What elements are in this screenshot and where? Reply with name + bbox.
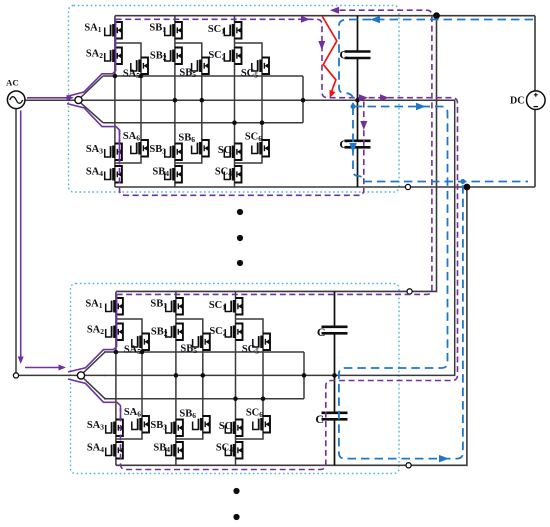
node module1 output terminal (open terminal) [405,184,410,189]
transistor SC5' [253,334,270,351]
svg-text:SC4: SC4 [215,167,232,179]
arrow purple chain down [18,357,24,365]
arrow blue bottom right [439,455,449,463]
svg-text:SC3: SC3 [219,421,236,433]
wire phase B clamp branch module1 [175,43,202,163]
svg-text:SB6: SB6 [179,409,196,421]
svg-text:SC5: SC5 [241,68,258,80]
arrow purple P1 right [301,16,310,23]
node clamp A / rail1 module2 [140,350,145,355]
node continuation dot 4 [233,488,239,494]
transistor SB3 [165,144,182,161]
arrow blue down at C2 [349,143,357,153]
svg-text:C: C [339,48,348,62]
arrow purple P1 down [318,41,325,50]
wire red fault zigzag across C1 [322,17,336,94]
svg-text:C: C [339,137,348,151]
svg-text:SA3: SA3 [87,420,104,432]
svg-text:SA6: SA6 [124,407,141,419]
node module2 top terminal (open terminal) [407,289,412,294]
transistor SB6' [193,416,210,433]
module 2 boundary (dotted box) [71,284,400,474]
node leg B / rail2 module2 [174,373,179,378]
wire top DC bus module1 to DC source [115,15,535,17]
transistor SA1 [105,22,122,39]
node fan point module2 [77,372,84,379]
wire AC1 to fan point [25,99,75,101]
node clamp C / rail3 module2 [261,396,266,401]
transistor SB6 [192,140,209,157]
transistor SC1' [225,298,242,315]
node clamp C / rail3 module1 [260,120,265,125]
svg-text:AC: AC [6,78,19,88]
svg-text:SB3: SB3 [149,144,166,156]
wire phase B leg module2 [175,292,177,466]
node leg B / rail2 module1 [173,98,178,103]
transistor SC6' [253,416,270,433]
wire purple dashed P4: module2 top bus up and left to module1 [117,10,432,294]
transistor SA6 [131,140,148,157]
svg-text:SC2: SC2 [208,50,225,62]
arrow purple P3 down [360,121,367,130]
wire phase A clamp branch module1 [115,43,141,163]
node leg A / rail1 module2 [114,350,119,355]
wire phase C clamp branch module1 [235,43,263,163]
node blue junction right side [460,179,465,184]
svg-text:DC: DC [510,96,524,107]
svg-text:SC1: SC1 [208,24,225,36]
arrow purple P2 right a [359,94,368,101]
svg-text:SC2: SC2 [209,326,226,338]
svg-text:SA2: SA2 [87,325,104,337]
wire module2 bottom bus up to bottom DC bus [116,187,467,465]
DC source [527,91,546,110]
transistor SB2' [166,324,183,341]
transistor SB1 [165,22,182,39]
svg-text:SB2: SB2 [150,51,167,63]
wire blue dashed down past C2 and right [353,107,528,182]
svg-text:SA1: SA1 [85,299,102,311]
svg-text:SC4: SC4 [216,443,233,455]
svg-text:SC1: SC1 [209,300,226,312]
arrow blue right to module2 [416,103,426,111]
wire AC rails module1 [103,76,303,123]
node clamp B / rail2 module1 [200,98,205,103]
wire phase C leg module2 [235,292,237,466]
wire purple dashed P1: module1 top bus to capacitor C1 to mid rail [116,19,359,97]
node leg C / rail3 module1 [232,120,237,125]
capacitor C (module1 lower) [357,100,359,187]
transistor SC2' [225,324,242,341]
wire purple fan hug module1 lower [67,104,120,160]
wire phase B clamp branch module2 [176,319,203,439]
node capacitor midpoint module1 [355,98,360,103]
transistor SC4' [225,442,242,459]
transistor SC3 [224,144,241,161]
wire AC chain down the left side [16,109,78,376]
svg-text:SA1: SA1 [84,23,101,35]
svg-text:SA5: SA5 [123,69,140,81]
arrow purple AC2 into module2 [59,365,67,371]
node collector / rail2 module2 [302,373,307,378]
svg-text:SB1: SB1 [150,299,167,311]
wire phase A clamp branch module2 [116,319,142,439]
arrow purple P4 left [330,7,339,14]
node AC chain terminal (open terminal) [13,373,18,378]
transistor SA2 [105,48,122,65]
arrow purple P2 right b [380,94,389,101]
transistor SC1 [224,22,241,39]
node blue junction at C1 bottom [351,104,356,109]
svg-text:SC6: SC6 [245,132,262,144]
node continuation dot 2 [237,235,243,241]
svg-text:SA4: SA4 [87,443,104,455]
module 1 boundary (dotted box) [69,6,400,193]
wire purple fan hug module2 upper [68,294,117,372]
transistor SA5 [131,58,148,75]
wire blue dashed top return [339,20,533,106]
wire bottom DC bus module1 [115,186,535,188]
transistor SB1' [166,298,183,315]
wire purple fan hug module2 lower [68,379,121,420]
capacitor C (module2 lower) [334,375,336,465]
svg-text:C: C [317,325,326,339]
node bottom DC bus junction [464,184,471,191]
wire mid rails link module1-module2 [103,100,455,375]
svg-text:SB1: SB1 [149,23,166,35]
svg-text:SB4: SB4 [153,443,170,455]
transistor SC3' [225,420,242,437]
svg-text:SB6: SB6 [178,133,195,145]
transistor SA4 [105,166,122,183]
transistor SB3' [166,420,183,437]
AC source AC1 [7,91,25,109]
wire AC rails module2 [104,352,304,399]
node continuation dot 1 [237,209,243,215]
transistor SB5 [192,58,209,75]
node top DC bus junction [433,12,440,19]
wire phase C leg module1 [234,16,236,187]
wire purple chain down (parallel to AC chain) [20,111,22,358]
svg-text:SA2: SA2 [86,49,103,61]
svg-text:SA6: SA6 [123,131,140,143]
transistor SC4 [224,166,241,183]
arrow red fault down [327,90,336,99]
node module2 bottom terminal (open terminal) [406,463,411,468]
wire DC source right side [534,16,536,187]
svg-text:SA3: SA3 [86,144,103,156]
transistor SA6' [132,416,149,433]
node fan point module1 [75,96,82,103]
transistor SA4' [106,442,123,459]
wire purple AC1 feed line [27,97,67,99]
transistor SB5' [193,334,210,351]
transistor SB4' [166,442,183,459]
transistor SA3 [105,144,122,161]
wire blue dashed loop through module2 [339,107,463,459]
arrow blue top left [370,16,380,24]
svg-text:SC5: SC5 [242,344,259,356]
svg-text:SC3: SC3 [218,145,235,157]
svg-text:SB5: SB5 [180,344,197,356]
svg-text:SA5: SA5 [124,345,141,357]
wire phase A leg module1 [114,16,116,187]
transistor SC5 [252,58,269,75]
transistor SC6 [252,140,269,157]
wire module2 top bus up to top DC bus [116,16,437,292]
node leg C / rail3 module2 [233,396,238,401]
wire purple dashed P3: mid rail down past C2 and back under module1 [120,102,364,196]
svg-text:SB4: SB4 [152,167,169,179]
wire purple AC2 feed line [25,367,59,369]
transistor SC2 [224,48,241,65]
wire phase C clamp branch module2 [236,319,264,439]
wire fan diagonals module1 [81,76,103,123]
wire phase B leg module1 [174,16,176,187]
svg-text:SB2: SB2 [151,327,168,339]
wire purple fan hug module1 upper [67,19,116,96]
node clamp B / rail2 module2 [201,373,206,378]
wire fan diagonals module2 [84,352,105,399]
transistor SA5' [132,334,149,351]
capacitor C (module2 upper) [334,291,336,375]
node capacitor midpoint module2 [332,373,337,378]
transistor SA1' [106,298,123,315]
transistor SB4 [165,166,182,183]
transistor SB2 [165,48,182,65]
node continuation dot 5 [233,514,239,520]
wire purple dashed P2: mid rail to module2 [121,98,458,470]
node leg A / rail1 module1 [113,74,118,79]
transistor SA2' [106,324,123,341]
svg-text:SB5: SB5 [179,68,196,80]
svg-text:SB3: SB3 [150,420,167,432]
capacitor C (module1 upper) [357,16,359,101]
svg-text:C: C [315,412,324,426]
wire phase A leg module2 [115,292,117,466]
node collector / rail2 module1 [301,98,306,103]
transistor SA3' [106,420,123,437]
arrow purple AC1 into module1 [67,95,75,101]
svg-text:SA4: SA4 [86,167,103,179]
svg-text:SC6: SC6 [246,408,263,420]
node clamp A / rail1 module1 [139,74,144,79]
node continuation dot 3 [237,260,243,266]
